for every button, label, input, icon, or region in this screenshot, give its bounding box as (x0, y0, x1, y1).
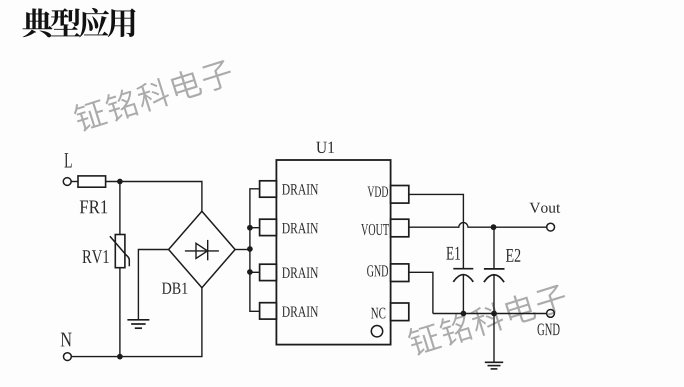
wire VOUT rail with hop (409, 223, 547, 228)
pin label DRAIN 2 (282, 223, 318, 233)
pin box NC (391, 303, 409, 321)
pin label VDD (368, 186, 389, 197)
GND rail (433, 313, 547, 315)
wire E2 top lead (493, 227, 495, 269)
watermark bottom-right (406, 281, 569, 357)
junction bus bridge (247, 246, 253, 252)
drain bus (250, 189, 260, 311)
wire VDD to E1 top (409, 194, 464, 268)
label L (64, 153, 71, 167)
wire junction down to RV1 (119, 182, 121, 235)
pin label NC (371, 308, 385, 319)
op IC U1 body (276, 160, 390, 345)
terminal GND (547, 310, 555, 318)
ground (input side) (127, 320, 149, 328)
DB1 internal diode (185, 240, 219, 260)
pin box DRAIN 4 (260, 303, 277, 319)
wire diamond right vertex to drain bus (235, 249, 250, 251)
wire RV1 to N line (119, 268, 121, 357)
bridge rectifier DB1 diamond (169, 211, 236, 287)
label FR1 (80, 200, 108, 213)
label E1 (446, 247, 460, 260)
wire FR1 to diamond top corner (106, 182, 202, 212)
terminal N (64, 353, 72, 361)
pin box VOUT (391, 219, 409, 237)
pin label DRAIN 4 (282, 306, 318, 316)
junction bus pin2 (247, 225, 253, 231)
wire N line (71, 288, 202, 357)
wire L to FR1 (71, 181, 78, 183)
label Vout (529, 203, 560, 213)
pin box DRAIN 1 (260, 181, 277, 197)
pin label DRAIN 3 (282, 267, 318, 277)
varistor RV1 body (115, 235, 125, 268)
junction VOUT / E2 (491, 224, 497, 230)
wire diamond left vertex to ground branch (138, 250, 168, 320)
terminal Vout (547, 223, 555, 231)
terminal L (63, 178, 71, 186)
watermark top-left (71, 57, 234, 134)
pin label GND (367, 265, 388, 276)
label N (61, 333, 72, 347)
pin label DRAIN 1 (282, 184, 318, 194)
pin box DRAIN 3 (260, 264, 277, 280)
ground (output side) (485, 362, 503, 369)
pin-1 indicator circle (371, 326, 382, 337)
junction rail / E2 (491, 311, 497, 317)
junction rail / E1 (461, 311, 467, 317)
wire rail to ground symbol (493, 314, 495, 363)
pin box DRAIN 2 (260, 219, 277, 235)
varistor RV1 diagonal (110, 236, 129, 266)
junction bus pin3 (247, 269, 253, 275)
wire E1 bottom lead (462, 275, 464, 314)
wire E2 bottom lead (493, 275, 495, 314)
label U1 (316, 142, 334, 153)
capacitor E2 (484, 269, 505, 282)
stub pin2 (250, 227, 260, 229)
pin label VOUT (361, 224, 389, 235)
stub pin3 (250, 271, 260, 273)
resistor FR1 (78, 176, 106, 187)
label DB1 (162, 283, 187, 294)
junction N-line / RV1 branch (117, 354, 123, 360)
label RV1 (82, 250, 108, 263)
pin box GND (391, 264, 409, 282)
pin box VDD (391, 186, 409, 204)
title 典型应用 (22, 8, 135, 38)
junction L-line / RV1 branch (117, 179, 123, 185)
label GND terminal (538, 324, 560, 336)
wire GND pin to rail (409, 272, 433, 313)
label E2 (506, 249, 520, 262)
capacitor E1 (453, 269, 473, 282)
